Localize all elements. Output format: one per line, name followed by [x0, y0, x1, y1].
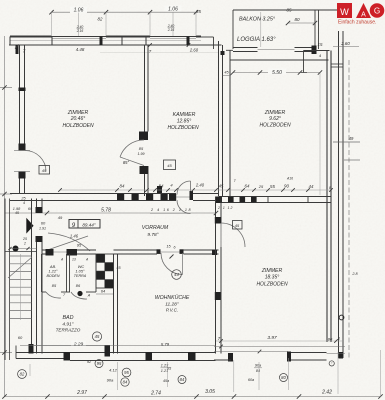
- dim label A16: [286, 177, 293, 181]
- window jamb tick x188: [187, 37, 190, 46]
- bottom line right stub: [214, 359, 231, 361]
- big room wall hatch: [228, 197, 257, 202]
- dim label 64 r: [245, 184, 250, 189]
- dim label 1.06 right: [165, 6, 182, 13]
- dim tick step: [319, 53, 322, 58]
- wc door arc: [71, 292, 87, 299]
- dim vline b3: [258, 362, 260, 390]
- kammer left wall upper: [145, 45, 149, 132]
- vorraum door opening: [176, 196, 190, 198]
- dim ext line x106: [105, 12, 107, 36]
- dim label 7 r: [233, 179, 236, 183]
- entrance dim stack lower: [22, 237, 27, 246]
- kammer heater box: [164, 160, 176, 170]
- party wall tick y160: [344, 159, 360, 161]
- right chain line: [380, 350, 382, 397]
- ab wc divider wall: [67, 254, 70, 292]
- dim vline b1: [117, 362, 119, 390]
- dim 64 chimney: [96, 289, 114, 295]
- dim 45a: [163, 379, 169, 383]
- logo slogan: [338, 20, 376, 26]
- kammer right wall: [219, 41, 223, 196]
- dim ext line x196: [195, 12, 197, 36]
- bottom chain ticks: [2, 394, 382, 398]
- dim label 44: [309, 184, 314, 189]
- balcony top line: [233, 9, 343, 11]
- party wall tick y142: [333, 136, 360, 142]
- dim label 15 step: [318, 42, 323, 47]
- top wall stub to balcony: [201, 37, 214, 49]
- big room left wall: [216, 197, 222, 354]
- dim label 240 d: [195, 183, 205, 188]
- kammer door post lower: [140, 166, 149, 174]
- dim 7 bad: [63, 293, 66, 297]
- dim row bottom right: [216, 335, 343, 343]
- dim line 80 balcony: [286, 17, 317, 25]
- dim label 7 left pier: [23, 49, 26, 54]
- ab room left wall: [41, 254, 43, 292]
- left wall pier mark: [19, 88, 26, 92]
- door post x190: [190, 191, 194, 200]
- dim micro row 2112: [217, 206, 233, 210]
- shaft dim 45: [223, 71, 232, 76]
- logo W square: [337, 3, 352, 18]
- ab door arc: [46, 292, 61, 298]
- dim vline x320: [319, 73, 321, 196]
- left zimmer heater box: [39, 166, 50, 175]
- kueche door arc: [161, 253, 183, 275]
- dim 85 ab: [52, 283, 57, 288]
- bottom wall right segment: [288, 353, 327, 361]
- dim label 8 r: [329, 186, 332, 190]
- dim 4 corner: [340, 356, 342, 360]
- stair left wall: [5, 199, 10, 361]
- window jamb tick x146: [145, 37, 147, 46]
- dim label 4.48: [76, 47, 85, 52]
- dim 86 wc: [76, 283, 81, 288]
- chimney hatch: [96, 254, 114, 288]
- entrance dim stack: [13, 196, 33, 215]
- dim label 1.46 entr: [70, 234, 79, 239]
- bottom wall posts: [29, 344, 196, 361]
- dim label 2.8 party: [351, 272, 358, 276]
- stair right wall: [31, 199, 33, 354]
- entrance door posts: [36, 207, 43, 242]
- balcony left wall: [232, 10, 234, 49]
- kammer door post2: [157, 186, 162, 194]
- dim A bad: [87, 294, 91, 298]
- dim label 5.78: [101, 208, 111, 214]
- dim line top windows: [49, 10, 198, 14]
- dim stack 90a-84: [254, 364, 262, 374]
- balcony right post: [312, 46, 317, 55]
- label ZIMMER right top: [259, 110, 291, 129]
- label LOGGIA: [237, 37, 276, 43]
- loggia bottom wall: [233, 48, 312, 52]
- label BAD: [56, 315, 81, 333]
- dim label 85 top: [196, 9, 201, 14]
- big room wall window ticks: [268, 197, 308, 203]
- vorraum top wall lines: [10, 194, 176, 201]
- dim 90a: [107, 378, 114, 383]
- dim label 1.79 kueche: [161, 342, 172, 371]
- stair dim line: [8, 247, 36, 250]
- faint guide line y52: [100, 52, 218, 54]
- dim 60 entrance: [39, 221, 46, 231]
- dim circ 84 b: [121, 378, 129, 386]
- dim vline b2b: [233, 360, 235, 392]
- kammer-vorraum door arc: [177, 181, 191, 195]
- kammer door dim 85: [138, 146, 145, 156]
- window jamb tick x101: [100, 37, 103, 46]
- dim label 5.50: [268, 69, 286, 77]
- window jamb tick x122: [121, 37, 123, 46]
- right room left wall: [229, 50, 231, 196]
- stair landing line: [5, 251, 37, 253]
- dim circ 45 bad: [92, 332, 101, 341]
- party wall cap: [331, 64, 343, 67]
- bottom wall line a: [16, 352, 216, 354]
- dim circ 82 bl: [18, 370, 27, 379]
- dim 60a: [248, 378, 254, 382]
- label BALKON: [239, 17, 276, 23]
- big room wall post a: [215, 217, 221, 224]
- wall top inner line: [9, 44, 222, 46]
- balcony door posts left: [19, 144, 26, 179]
- left tick y87: [0, 85, 12, 89]
- dim leader x173: [172, 12, 174, 36]
- dim 92 mid: [87, 360, 103, 368]
- bad door micro labels: [60, 258, 89, 262]
- ab bottom wall: [42, 291, 97, 293]
- dim label 2.74: [150, 391, 161, 397]
- dim micro row: [150, 208, 192, 214]
- dim label 2.60 kammer: [189, 48, 199, 53]
- dim label 1.06 left: [70, 7, 87, 14]
- party wall: [339, 31, 344, 358]
- dim 2.29 line: [34, 345, 107, 347]
- big room door arc: [221, 223, 245, 247]
- dim ext line x51: [51, 12, 53, 36]
- dim line 5.78: [5, 211, 219, 215]
- label AB: [46, 264, 59, 278]
- dim label 49 box: [58, 215, 63, 220]
- logo A triangle: [356, 3, 371, 19]
- label ZIMMER left: [62, 110, 94, 129]
- black dot column: [13, 246, 19, 252]
- kammer door arc: [120, 140, 144, 157]
- window sill lines top: [52, 38, 197, 40]
- shaft lintel post: [221, 51, 225, 55]
- terrace thin line: [327, 353, 346, 355]
- stair run line: [20, 254, 22, 320]
- dim label 3.05: [205, 389, 215, 395]
- kueche door opening line: [161, 251, 180, 253]
- logo G circle: [370, 3, 385, 18]
- dim label 25: [258, 184, 264, 189]
- kammer-vorraum door arc lower: [177, 200, 191, 214]
- dim circ 90 corner: [329, 361, 334, 366]
- big room top wall: [219, 197, 332, 203]
- bottom wall line b: [16, 359, 216, 361]
- left pier post: [15, 45, 19, 55]
- wc right boundary: [95, 254, 97, 292]
- dim line y189: [60, 189, 331, 191]
- dim label 2.29: [71, 341, 86, 348]
- dim label 2.60: [340, 41, 350, 46]
- bottom wall left end: [15, 346, 17, 359]
- right room top wall: [230, 59, 329, 61]
- big room wall post b: [215, 292, 221, 300]
- wall top sill line: [10, 40, 201, 42]
- dim 45 chimney: [116, 266, 121, 270]
- dim vline b4: [337, 352, 339, 394]
- window jamb tick x52: [51, 37, 53, 46]
- left outer wall lower: [20, 179, 25, 195]
- dim ticks row: [58, 188, 333, 192]
- balcony door arc: [25, 151, 46, 172]
- dim line 5.50: [231, 70, 322, 74]
- big room left wall lower: [220, 247, 222, 354]
- stair steps: [10, 256, 32, 318]
- balcony right wall: [315, 10, 319, 49]
- dim label 7 kammer: [148, 43, 190, 54]
- stair diagonal: [8, 257, 32, 278]
- kueche top wall: [114, 250, 158, 254]
- dim label 82: [98, 17, 103, 22]
- dim stack 240-216 right: [167, 24, 175, 32]
- right rooms right wall: [327, 51, 331, 343]
- dim vline balcony mid: [260, 12, 262, 47]
- kueche door posts: [157, 249, 218, 255]
- kammer door leaf: [120, 157, 144, 166]
- party wall tick y46: [333, 46, 359, 48]
- dim circ 84 kueche: [178, 376, 186, 384]
- vorraum wall segment2: [193, 194, 219, 201]
- dim label 2.42: [321, 390, 332, 396]
- kammer door post: [139, 132, 148, 141]
- balcony door ticks: [14, 151, 30, 172]
- kueche top wall b: [184, 250, 219, 254]
- dim 4.12: [109, 368, 118, 373]
- bad door posts: [46, 249, 78, 256]
- dim circ 44 kueche: [172, 270, 182, 280]
- loggia floor stub: [226, 49, 233, 51]
- dim 60 stairs: [18, 335, 23, 340]
- right room step line: [301, 51, 330, 74]
- dim label 84 a: [120, 184, 125, 189]
- dim label 84 b: [159, 184, 164, 189]
- dim stack 123-121: [161, 364, 170, 374]
- wall top outer line: [10, 36, 201, 38]
- bottom wall right posts: [228, 352, 343, 362]
- label VORRAUM: [142, 225, 169, 238]
- flat left wall lower: [37, 242, 43, 354]
- left tick y194: [0, 192, 12, 196]
- bottom sill line: [20, 345, 216, 347]
- dim vline b3b: [287, 358, 289, 390]
- label WOHNKUECHE: [155, 294, 190, 313]
- dim label 55: [270, 184, 275, 189]
- bad top wall: [42, 250, 96, 254]
- entrance arc: [46, 233, 90, 251]
- bad kueche divider wall: [114, 254, 118, 354]
- kammer left wall lower: [145, 166, 149, 196]
- flat number box: [69, 220, 100, 230]
- dim ext line x150: [149, 12, 151, 36]
- big room heater box: [233, 221, 243, 230]
- kueche door dims: [166, 245, 175, 259]
- label WC: [74, 264, 87, 278]
- big room door leaf: [220, 223, 222, 247]
- dim vline b2: [167, 362, 169, 387]
- wc door dot: [77, 291, 82, 296]
- party wall thin line: [348, 60, 350, 358]
- flat left wall upper: [37, 199, 43, 214]
- left outer wall upper: [20, 45, 25, 144]
- dim tick bl: [29, 364, 31, 376]
- vorraum wall hatch: [117, 194, 176, 200]
- dim leader x78: [78, 12, 80, 36]
- dim stack 240-216 left: [76, 25, 84, 33]
- dim label 85 balcony: [287, 8, 292, 13]
- dim label 45 r: [219, 184, 224, 189]
- label ZIMMER big: [256, 268, 288, 288]
- dim label 2.97: [76, 390, 87, 396]
- dim circ 80 c: [280, 374, 288, 382]
- wall top left end tick: [9, 37, 11, 46]
- kammer door label 85deg: [123, 160, 130, 165]
- dim label 95 entr: [77, 243, 82, 248]
- label KAMMER: [167, 112, 199, 131]
- left tick y352: [0, 350, 12, 354]
- bottom chain line: [5, 396, 381, 398]
- party wall dot: [339, 315, 344, 320]
- bottom sill line right: [214, 345, 345, 354]
- bottom inner line right: [214, 351, 288, 353]
- big room wall corner post: [216, 197, 223, 204]
- dim circ 95 b: [122, 368, 131, 377]
- wall top piers thick: [10, 36, 201, 38]
- dim label 4 c: [170, 183, 173, 188]
- left dim chain: [4, 36, 6, 397]
- entrance marker triangle: [26, 218, 33, 234]
- dim label 90b: [284, 184, 289, 189]
